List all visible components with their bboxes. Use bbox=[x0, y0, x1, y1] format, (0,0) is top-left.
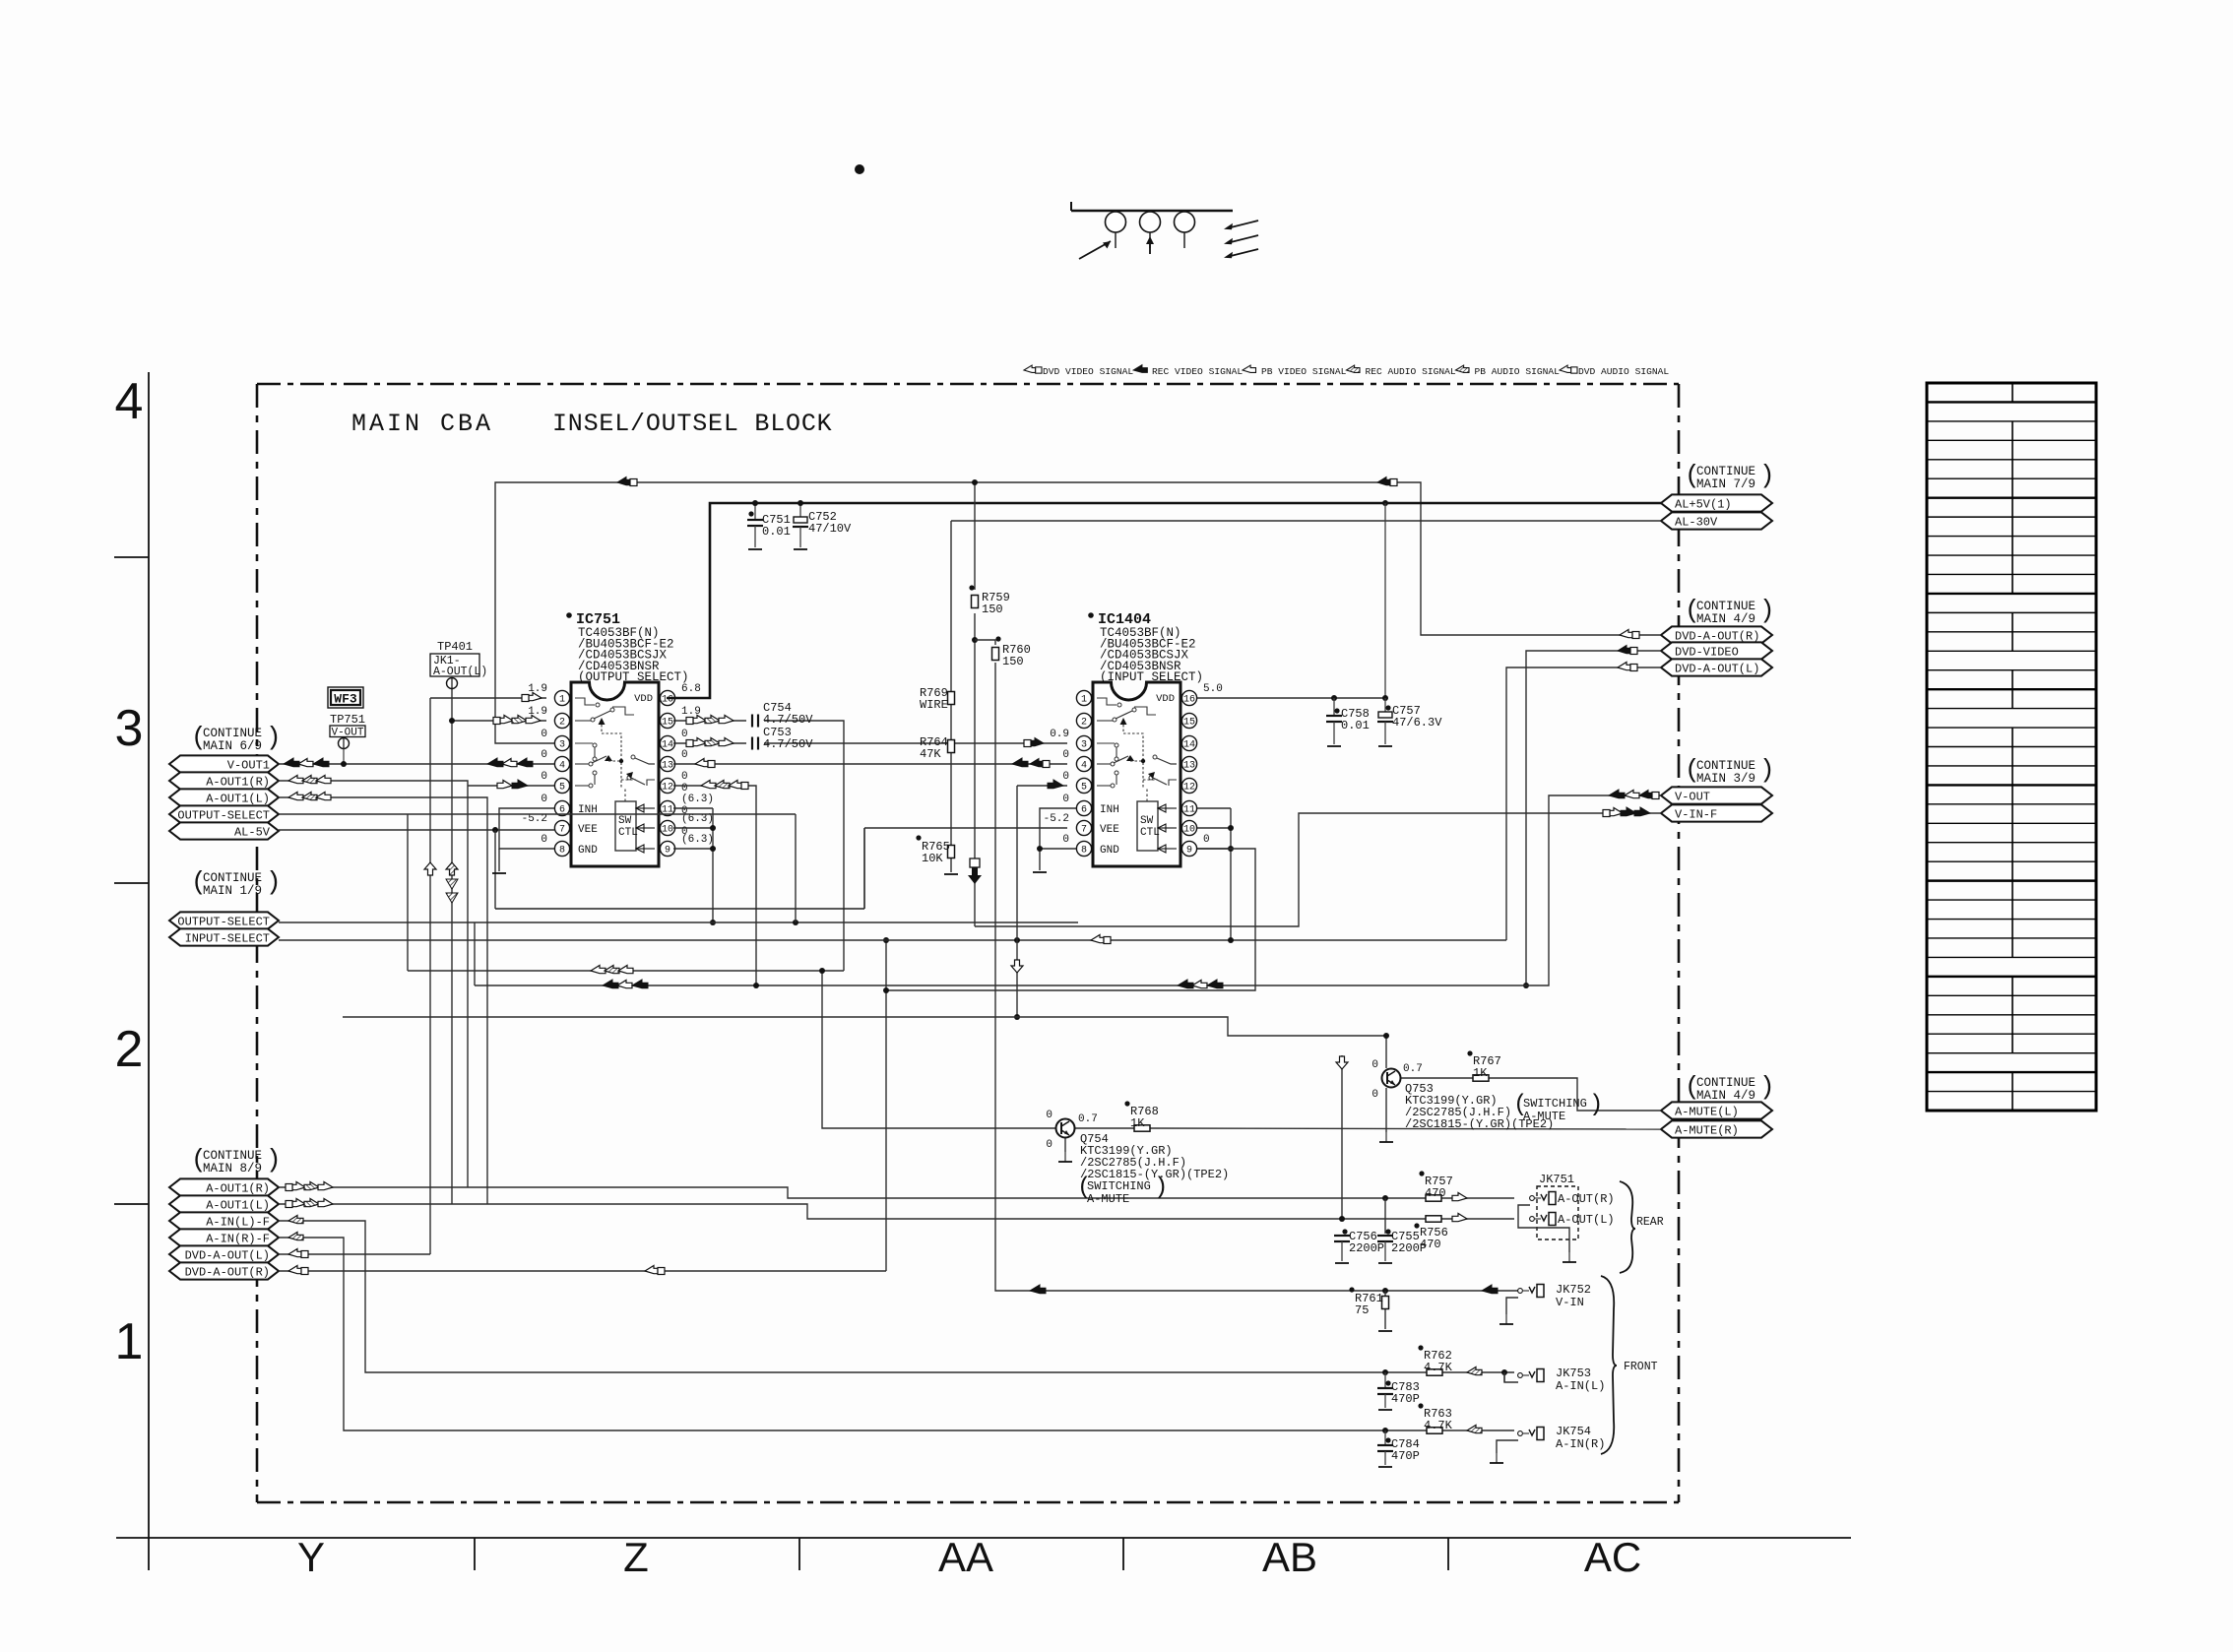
resistor R767 bbox=[1473, 1075, 1489, 1081]
IC IC751 body bbox=[571, 682, 659, 866]
net flag A-OUT1(L) b bbox=[169, 1195, 279, 1212]
svg-text:VEE: VEE bbox=[578, 824, 598, 836]
REAR brace bbox=[1620, 1181, 1635, 1273]
IC IC751 pin 15 bbox=[660, 713, 674, 728]
wire IC751 SW CTL pins to OUTPUT-SELECT bbox=[673, 807, 713, 809]
svg-text:0: 0 bbox=[1062, 794, 1069, 805]
wire x1363 c756 branch bbox=[1341, 1055, 1343, 1219]
svg-text:(6.3): (6.3) bbox=[681, 794, 714, 805]
svg-text:SW: SW bbox=[618, 815, 632, 827]
IC IC1404 pin 16 bbox=[1181, 690, 1196, 705]
svg-text:3: 3 bbox=[1081, 740, 1087, 751]
svg-text:4.7K: 4.7K bbox=[1424, 1361, 1453, 1374]
svg-text:1K: 1K bbox=[1130, 1116, 1145, 1130]
svg-text:1K: 1K bbox=[1473, 1066, 1488, 1080]
svg-text:MAIN 8/9: MAIN 8/9 bbox=[203, 1162, 262, 1175]
IC IC1404 pin 12 bbox=[1181, 778, 1196, 793]
svg-text:12: 12 bbox=[662, 783, 673, 794]
wire IC1404 SW CTL pins to INPUT-SELECT bbox=[1197, 807, 1231, 809]
wire DVD-A-OUT(L) right bbox=[1506, 667, 1661, 940]
svg-text:4: 4 bbox=[559, 761, 565, 772]
resistor R763 bbox=[1427, 1428, 1442, 1433]
svg-text:4.7/50V: 4.7/50V bbox=[763, 713, 813, 727]
IC IC751 pin 11 bbox=[660, 800, 674, 815]
svg-text:0.7: 0.7 bbox=[1078, 1113, 1098, 1125]
IC IC1404 SW CTL bbox=[1137, 801, 1158, 851]
svg-text:4.7K: 4.7K bbox=[1424, 1419, 1453, 1432]
svg-text:A-MUTE(L): A-MUTE(L) bbox=[1675, 1105, 1739, 1118]
net flag A-OUT1(R) bbox=[169, 772, 279, 789]
main block border (dash-dot) bbox=[257, 383, 1679, 386]
net flag DVD-A-OUT(R) r bbox=[1661, 626, 1772, 643]
IC IC751 pin 12 bbox=[660, 778, 674, 793]
resistor R764 bbox=[948, 740, 955, 753]
wire row 986 bbox=[408, 970, 844, 972]
net flag OUTPUT-SELECT bbox=[169, 805, 279, 822]
svg-text:1.9: 1.9 bbox=[528, 683, 547, 695]
svg-text:7: 7 bbox=[1081, 825, 1087, 836]
svg-text:OUTPUT-SELECT: OUTPUT-SELECT bbox=[177, 915, 270, 928]
svg-text:GND: GND bbox=[578, 845, 598, 857]
svg-text:FRONT: FRONT bbox=[1624, 1361, 1658, 1373]
IC IC751 pin 16 bbox=[660, 690, 674, 705]
svg-text:3: 3 bbox=[115, 700, 144, 757]
svg-text:CONTINUE: CONTINUE bbox=[203, 727, 262, 740]
svg-text:VDD: VDD bbox=[1156, 693, 1175, 705]
svg-text:CONTINUE: CONTINUE bbox=[1696, 759, 1755, 773]
IC IC751 pin 9 bbox=[660, 841, 674, 856]
svg-text:MAIN 6/9: MAIN 6/9 bbox=[203, 739, 262, 753]
wire A-OUT1(R) bottom to JK751 bbox=[279, 1187, 1426, 1198]
IC IC1404 labels bbox=[1088, 612, 1094, 618]
IC IC751 pin 14 bbox=[660, 735, 674, 750]
IC IC1404 body bbox=[1093, 682, 1180, 866]
svg-text:INH: INH bbox=[1100, 804, 1119, 816]
resistor R765 bbox=[948, 846, 955, 858]
svg-text:47/10V: 47/10V bbox=[808, 522, 852, 536]
svg-text:V-IN-F: V-IN-F bbox=[1675, 807, 1717, 821]
IC IC1404 pin 9 bbox=[1181, 841, 1196, 856]
resistor R756 bbox=[1426, 1216, 1441, 1222]
svg-text:): ) bbox=[1759, 461, 1775, 490]
svg-text:A-OUT1(L): A-OUT1(L) bbox=[206, 1198, 270, 1212]
svg-text:PB AUDIO SIGNAL: PB AUDIO SIGNAL bbox=[1475, 366, 1561, 377]
capacitor C754 bbox=[751, 715, 753, 728]
svg-text:14: 14 bbox=[662, 740, 673, 751]
svg-text:470P: 470P bbox=[1391, 1449, 1420, 1463]
net flag A-IN(L)-F bbox=[169, 1212, 279, 1229]
wire row 1033 to Q753 base bbox=[343, 1017, 1386, 1036]
svg-text:2200P: 2200P bbox=[1349, 1241, 1384, 1255]
svg-text:A-MUTE: A-MUTE bbox=[1087, 1192, 1129, 1206]
IC IC751 labels bbox=[566, 612, 572, 618]
svg-text:MAIN 3/9: MAIN 3/9 bbox=[1696, 772, 1755, 786]
svg-text:INSEL/OUTSEL BLOCK: INSEL/OUTSEL BLOCK bbox=[552, 410, 832, 438]
svg-text:JK752: JK752 bbox=[1556, 1283, 1591, 1297]
IC IC751 pin 8 bbox=[554, 841, 569, 856]
grid left axis bbox=[148, 372, 150, 1570]
svg-text:): ) bbox=[1759, 596, 1775, 625]
svg-text:2: 2 bbox=[115, 1021, 144, 1078]
svg-text:0: 0 bbox=[1372, 1059, 1378, 1071]
wire AL-5V to VEE IC751 bbox=[279, 829, 554, 831]
svg-text:REAR: REAR bbox=[1636, 1216, 1664, 1229]
capacitor C755 bbox=[1377, 1235, 1393, 1237]
svg-text:0: 0 bbox=[1062, 749, 1069, 761]
wire A-OUT1(R) G1 down bbox=[279, 781, 468, 1187]
svg-text:8: 8 bbox=[1081, 846, 1087, 857]
resistor R762 bbox=[1427, 1369, 1442, 1375]
svg-text:VDD: VDD bbox=[634, 693, 653, 705]
net flag DVD-A-OUT(L) bbox=[169, 1245, 279, 1262]
svg-text:): ) bbox=[266, 867, 282, 897]
wire OUTPUT-SELECT link bbox=[279, 813, 796, 815]
svg-text:0.01: 0.01 bbox=[762, 525, 791, 539]
svg-text:CTL: CTL bbox=[618, 827, 638, 839]
svg-text:TP401: TP401 bbox=[437, 640, 473, 654]
svg-text:1: 1 bbox=[115, 1313, 144, 1370]
svg-text:13: 13 bbox=[662, 761, 673, 772]
net flag OUTPUT-SELECT 2 bbox=[169, 912, 279, 928]
svg-text:5.0: 5.0 bbox=[1203, 683, 1223, 695]
svg-text:GND: GND bbox=[1100, 845, 1119, 857]
capacitor C753 bbox=[751, 737, 753, 750]
svg-text:AL+5V(1): AL+5V(1) bbox=[1675, 497, 1732, 511]
resistor R761 bbox=[1384, 1291, 1386, 1296]
capacitor C783 bbox=[1384, 1372, 1386, 1388]
wire INH/GND IC1404 ground bbox=[1040, 808, 1076, 870]
net flag V-IN-F bbox=[1661, 804, 1772, 821]
net flag A-MUTE(R) bbox=[1661, 1120, 1772, 1137]
wire IC751 pin2 bbox=[452, 720, 546, 722]
transistor Q754 bbox=[1056, 1119, 1075, 1138]
svg-text:(6.3): (6.3) bbox=[681, 813, 714, 825]
svg-text:0.01: 0.01 bbox=[1341, 719, 1370, 732]
svg-text:0: 0 bbox=[1062, 771, 1069, 783]
svg-text:OUTPUT-SELECT: OUTPUT-SELECT bbox=[177, 808, 270, 822]
svg-text:A-OUT1(R): A-OUT1(R) bbox=[206, 775, 270, 789]
svg-text:V-OUT1: V-OUT1 bbox=[227, 758, 270, 772]
svg-text:): ) bbox=[1759, 755, 1775, 785]
wire pin15 IC751 via C754 bbox=[673, 720, 746, 722]
svg-text:CONTINUE: CONTINUE bbox=[203, 871, 262, 885]
svg-text:10K: 10K bbox=[922, 852, 943, 865]
resistor R760 bbox=[992, 648, 999, 661]
wire V-OUT1 to IC751 pin4 bbox=[279, 763, 554, 765]
IC IC751 pin 3 bbox=[554, 735, 569, 750]
resistor R757 bbox=[1426, 1195, 1441, 1201]
svg-text:-5.2: -5.2 bbox=[522, 813, 547, 825]
wire TP401 drop bbox=[451, 689, 453, 1204]
wire AL-30V bbox=[951, 520, 1661, 522]
svg-text:DVD-A-OUT(L): DVD-A-OUT(L) bbox=[185, 1248, 270, 1262]
svg-text:0: 0 bbox=[541, 834, 547, 846]
svg-text:0: 0 bbox=[1046, 1139, 1053, 1151]
svg-text:SWITCHING: SWITCHING bbox=[1523, 1097, 1587, 1111]
wire pin3 IC751 to DVD-A-OUT(R) top run bbox=[495, 482, 1661, 743]
svg-text:REC VIDEO SIGNAL: REC VIDEO SIGNAL bbox=[1152, 366, 1243, 377]
IC IC1404 pin 5 bbox=[1076, 778, 1091, 793]
IC IC1404 pin 13 bbox=[1181, 756, 1196, 771]
stray dot bbox=[855, 164, 864, 174]
svg-text:CTL: CTL bbox=[1140, 827, 1160, 839]
wire IC1404 pin3 bbox=[951, 742, 1067, 744]
svg-text:AA: AA bbox=[938, 1534, 993, 1580]
svg-text:A-IN(L)-F: A-IN(L)-F bbox=[206, 1215, 270, 1229]
wire C755 link bbox=[1384, 1198, 1386, 1234]
connector JK753 bbox=[1518, 1369, 1544, 1382]
svg-text:A-OUT(R): A-OUT(R) bbox=[1558, 1192, 1615, 1206]
svg-text:JK754: JK754 bbox=[1556, 1425, 1591, 1438]
IC IC1404 internal switches bbox=[1097, 698, 1116, 705]
connector JK751 bbox=[1537, 1186, 1578, 1239]
svg-text:Y: Y bbox=[297, 1534, 325, 1580]
resistor R759 bbox=[972, 596, 979, 608]
svg-text:7: 7 bbox=[559, 825, 565, 836]
wire Q754 emitter bbox=[1064, 1138, 1066, 1152]
svg-text:0: 0 bbox=[681, 729, 688, 740]
svg-text:): ) bbox=[1589, 1092, 1603, 1118]
svg-text:15: 15 bbox=[1183, 718, 1195, 729]
svg-text:0.9: 0.9 bbox=[1050, 729, 1069, 740]
svg-text:9: 9 bbox=[665, 846, 670, 857]
svg-text:WIRE: WIRE bbox=[920, 698, 948, 712]
svg-text:0.7: 0.7 bbox=[1403, 1063, 1423, 1075]
svg-text:DVD-VIDEO: DVD-VIDEO bbox=[1675, 645, 1739, 659]
top connector icon bbox=[1070, 202, 1072, 211]
svg-text:A-IN(R)-F: A-IN(R)-F bbox=[206, 1232, 270, 1245]
wire DVD-VIDEO bbox=[1526, 651, 1661, 985]
svg-text:V-IN: V-IN bbox=[1556, 1296, 1584, 1309]
svg-text:(6.3): (6.3) bbox=[681, 834, 714, 846]
svg-text:CONTINUE: CONTINUE bbox=[203, 1149, 262, 1163]
svg-text:): ) bbox=[1154, 1175, 1168, 1201]
svg-text:47K: 47K bbox=[920, 747, 941, 761]
IC IC1404 pin 8 bbox=[1076, 841, 1091, 856]
svg-text:9: 9 bbox=[1186, 846, 1192, 857]
resistor R768 bbox=[1134, 1125, 1150, 1131]
svg-text:PB VIDEO SIGNAL: PB VIDEO SIGNAL bbox=[1261, 366, 1347, 377]
svg-text:(OUTPUT SELECT): (OUTPUT SELECT) bbox=[578, 670, 689, 684]
net flag AL+5V(1) bbox=[1661, 494, 1772, 511]
net flag INPUT-SELECT bbox=[169, 928, 279, 945]
IC IC751 pin 2 bbox=[554, 713, 569, 728]
net flag DVD-A-OUT(R) bbox=[169, 1262, 279, 1279]
net flag V-OUT1 bbox=[169, 755, 279, 772]
IC IC1404 pin 15 bbox=[1181, 713, 1196, 728]
svg-text:470: 470 bbox=[1425, 1186, 1446, 1200]
svg-text:A-OUT(L): A-OUT(L) bbox=[433, 666, 487, 678]
svg-text:150: 150 bbox=[982, 603, 1003, 616]
IC IC1404 pin 6 bbox=[1076, 800, 1091, 815]
grid bottom ruler bbox=[116, 1537, 1851, 1539]
wire IC751 pin12 cluster bbox=[673, 786, 756, 985]
IC IC1404 pin 2 bbox=[1076, 713, 1091, 728]
wire IC751 pin1 stub bbox=[430, 697, 546, 699]
connector JK752 bbox=[1518, 1285, 1544, 1298]
svg-text:2: 2 bbox=[1081, 718, 1087, 729]
svg-text:16: 16 bbox=[662, 695, 673, 706]
capacitor C757 bbox=[1382, 500, 1388, 506]
net flag A-OUT1(R) b bbox=[169, 1178, 279, 1195]
wire V-IN-F bbox=[975, 813, 1661, 926]
svg-text:A-IN(L): A-IN(L) bbox=[1556, 1379, 1605, 1393]
wire R759/R760 branch bbox=[974, 482, 976, 590]
wire R769/R764/R765 chain bbox=[950, 521, 952, 691]
svg-text:JK753: JK753 bbox=[1556, 1366, 1591, 1380]
svg-text:10: 10 bbox=[1183, 825, 1195, 836]
svg-text:0: 0 bbox=[1046, 1110, 1053, 1121]
net flag A-MUTE(L) bbox=[1661, 1102, 1772, 1118]
svg-text:REC AUDIO SIGNAL: REC AUDIO SIGNAL bbox=[1366, 366, 1456, 377]
svg-text:0: 0 bbox=[541, 729, 547, 740]
svg-text:15: 15 bbox=[662, 718, 673, 729]
wire A-OUT1(L) bottom to JK751 bbox=[279, 1204, 1426, 1219]
wire AL+5V rail bbox=[667, 503, 1661, 698]
svg-text:6: 6 bbox=[1081, 805, 1087, 816]
wire IC1404 pin5 bbox=[1017, 785, 1067, 787]
svg-text:): ) bbox=[266, 1145, 282, 1175]
capacitor C784 bbox=[1384, 1430, 1386, 1445]
svg-text:DVD VIDEO SIGNAL: DVD VIDEO SIGNAL bbox=[1043, 366, 1133, 377]
svg-text:4.7/50V: 4.7/50V bbox=[763, 737, 813, 751]
svg-text:1.9: 1.9 bbox=[528, 706, 547, 718]
svg-text:AC: AC bbox=[1584, 1534, 1641, 1580]
svg-text:A-MUTE: A-MUTE bbox=[1523, 1110, 1565, 1123]
capacitor C751 bbox=[754, 503, 756, 520]
svg-text:10: 10 bbox=[662, 825, 673, 836]
IC IC751 pin 1 bbox=[554, 690, 569, 705]
svg-text:DVD AUDIO SIGNAL: DVD AUDIO SIGNAL bbox=[1578, 366, 1669, 377]
svg-text:13: 13 bbox=[1183, 761, 1195, 772]
svg-text:A-MUTE(R): A-MUTE(R) bbox=[1675, 1123, 1739, 1137]
svg-text:5: 5 bbox=[559, 783, 565, 794]
net flag A-OUT1(L) bbox=[169, 789, 279, 805]
IC IC1404 pin 1 bbox=[1076, 690, 1091, 705]
FRONT brace bbox=[1601, 1276, 1617, 1454]
wire IC751 pin5 bbox=[468, 785, 554, 787]
wire pin14 IC751 via C753 bbox=[673, 742, 746, 744]
svg-text:1: 1 bbox=[1081, 695, 1087, 706]
capacitor C758 bbox=[1331, 695, 1337, 701]
wire DVD-A-OUT(R) bottom bbox=[279, 1270, 886, 1272]
svg-text:MAIN 4/9: MAIN 4/9 bbox=[1696, 612, 1755, 626]
svg-text:MAIN 1/9: MAIN 1/9 bbox=[203, 884, 262, 898]
voltage table bbox=[1927, 383, 2096, 1111]
wire Q753 collector to A-MUTE(L) bbox=[1400, 1077, 1473, 1079]
signal legend bbox=[1024, 365, 1042, 373]
svg-text:5: 5 bbox=[1081, 783, 1087, 794]
svg-text:-5.2: -5.2 bbox=[1044, 813, 1069, 825]
IC IC751 pin 10 bbox=[660, 820, 674, 835]
IC IC751 pin 7 bbox=[554, 820, 569, 835]
svg-text:WF3: WF3 bbox=[334, 692, 357, 707]
net flag DVD-VIDEO bbox=[1661, 642, 1772, 659]
wire IC751 pin13 to IC1404 pin4 bbox=[673, 763, 1067, 765]
svg-text:0: 0 bbox=[1372, 1089, 1378, 1101]
svg-text:AL-5V: AL-5V bbox=[234, 825, 271, 839]
wire Q754 collector to A-MUTE(R) bbox=[1074, 1127, 1134, 1129]
svg-text:12: 12 bbox=[1183, 783, 1195, 794]
IC IC1404 pin 14 bbox=[1181, 735, 1196, 750]
wire A-IN(L)-F bbox=[279, 1221, 1427, 1372]
svg-text:(INPUT SELECT): (INPUT SELECT) bbox=[1100, 670, 1203, 684]
svg-text:A-OUT(L): A-OUT(L) bbox=[1558, 1213, 1615, 1227]
svg-text:0: 0 bbox=[1062, 834, 1069, 846]
svg-text:16: 16 bbox=[1183, 695, 1195, 706]
svg-text:0: 0 bbox=[541, 749, 547, 761]
wire Q753 base/emitter bbox=[1385, 1036, 1387, 1068]
svg-text:): ) bbox=[266, 723, 282, 752]
svg-text:MAIN 4/9: MAIN 4/9 bbox=[1696, 1089, 1755, 1103]
IC IC751 pin 6 bbox=[554, 800, 569, 815]
svg-text:75: 75 bbox=[1355, 1303, 1369, 1317]
resistor R769 bbox=[948, 692, 955, 705]
svg-text:AB: AB bbox=[1262, 1534, 1317, 1580]
wire INH/GND IC751 ground bbox=[499, 808, 554, 849]
svg-text:470P: 470P bbox=[1391, 1392, 1420, 1406]
svg-text:0: 0 bbox=[681, 771, 688, 783]
svg-text:AL-30V: AL-30V bbox=[1675, 515, 1718, 529]
svg-text:MAIN CBA: MAIN CBA bbox=[351, 410, 493, 438]
svg-text:CONTINUE: CONTINUE bbox=[1696, 465, 1755, 478]
svg-text:V-OUT: V-OUT bbox=[1675, 790, 1710, 803]
svg-text:3: 3 bbox=[559, 740, 565, 751]
svg-text:CONTINUE: CONTINUE bbox=[1696, 1076, 1755, 1090]
svg-text:Z: Z bbox=[623, 1534, 649, 1580]
net flag AL-5V bbox=[169, 822, 279, 839]
test point WF3 bbox=[328, 687, 363, 708]
svg-text:0: 0 bbox=[541, 771, 547, 783]
wire A-IN(R)-F bbox=[279, 1238, 1427, 1430]
svg-text:11: 11 bbox=[1183, 805, 1195, 816]
svg-text:4: 4 bbox=[115, 373, 144, 430]
IC IC751 pin 5 bbox=[554, 778, 569, 793]
IC IC1404 pin 4 bbox=[1076, 756, 1091, 771]
IC IC751 SW CTL bbox=[615, 801, 636, 851]
svg-text:DVD-A-OUT(R): DVD-A-OUT(R) bbox=[1675, 629, 1759, 643]
IC IC751 pin 4 bbox=[554, 756, 569, 771]
svg-text:V-OUT: V-OUT bbox=[331, 728, 363, 739]
transistor Q753 bbox=[1382, 1069, 1401, 1088]
net flag AL-30V bbox=[1661, 512, 1772, 529]
wire IC1404 pin5 feed bbox=[1016, 786, 1018, 1017]
svg-text:INPUT-SELECT: INPUT-SELECT bbox=[185, 931, 270, 945]
wire A-OUT1(L) G1 down bbox=[279, 797, 487, 1204]
svg-text:A-OUT1(R): A-OUT1(R) bbox=[206, 1181, 270, 1195]
svg-text:150: 150 bbox=[1002, 655, 1024, 668]
IC IC1404 pin 11 bbox=[1181, 800, 1196, 815]
svg-text:470: 470 bbox=[1420, 1238, 1441, 1251]
wire VEE run to IC1404 bbox=[494, 830, 496, 909]
IC IC751 pin 13 bbox=[660, 756, 674, 771]
svg-text:14: 14 bbox=[1183, 740, 1195, 751]
wire OUTPUT-SELECT row2 bbox=[279, 921, 1078, 923]
IC IC1404 pin 7 bbox=[1076, 820, 1091, 835]
svg-text:): ) bbox=[1759, 1072, 1775, 1102]
wire pin16 IC1404 to +5 bbox=[1197, 697, 1385, 699]
net flag DVD-A-OUT(L) r bbox=[1661, 659, 1772, 675]
svg-text:A-IN(R): A-IN(R) bbox=[1556, 1437, 1605, 1451]
wire V-OUT long bbox=[475, 795, 1661, 985]
wire INPUT-SELECT row bbox=[279, 939, 1506, 941]
svg-text:SWITCHING: SWITCHING bbox=[1087, 1179, 1151, 1193]
svg-text:DVD-A-OUT(R): DVD-A-OUT(R) bbox=[185, 1265, 270, 1279]
svg-text:8: 8 bbox=[559, 846, 565, 857]
net flag V-OUT bbox=[1661, 787, 1772, 803]
svg-text:0: 0 bbox=[1203, 834, 1210, 846]
svg-text:JK751: JK751 bbox=[1539, 1173, 1574, 1186]
